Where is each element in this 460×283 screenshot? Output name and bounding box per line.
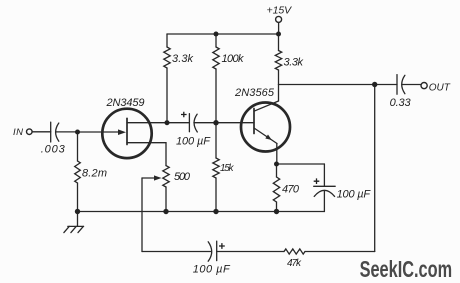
svg-text:IN: IN [13,127,23,138]
svg-text:500: 500 [174,171,191,183]
svg-text:+15V: +15V [267,4,293,16]
svg-text:3.3k: 3.3k [284,56,304,68]
svg-text:15k: 15k [220,163,235,174]
svg-text:100k: 100k [222,53,245,65]
svg-text:2N3459: 2N3459 [106,97,145,109]
svg-text:OUT: OUT [429,82,451,93]
svg-text:SeekIC.com: SeekIC.com [360,256,453,282]
svg-text:.003: .003 [41,143,66,155]
svg-text:100 µF: 100 µF [193,264,231,276]
svg-text:100 µF: 100 µF [176,136,211,148]
svg-text:0.33: 0.33 [390,97,412,109]
svg-text:47k: 47k [287,258,302,269]
svg-text:470: 470 [282,184,300,196]
svg-text:3.3k: 3.3k [172,53,194,65]
svg-text:100 µF: 100 µF [337,189,372,201]
svg-text:2N3565: 2N3565 [234,87,275,99]
svg-text:8.2m: 8.2m [82,168,107,180]
